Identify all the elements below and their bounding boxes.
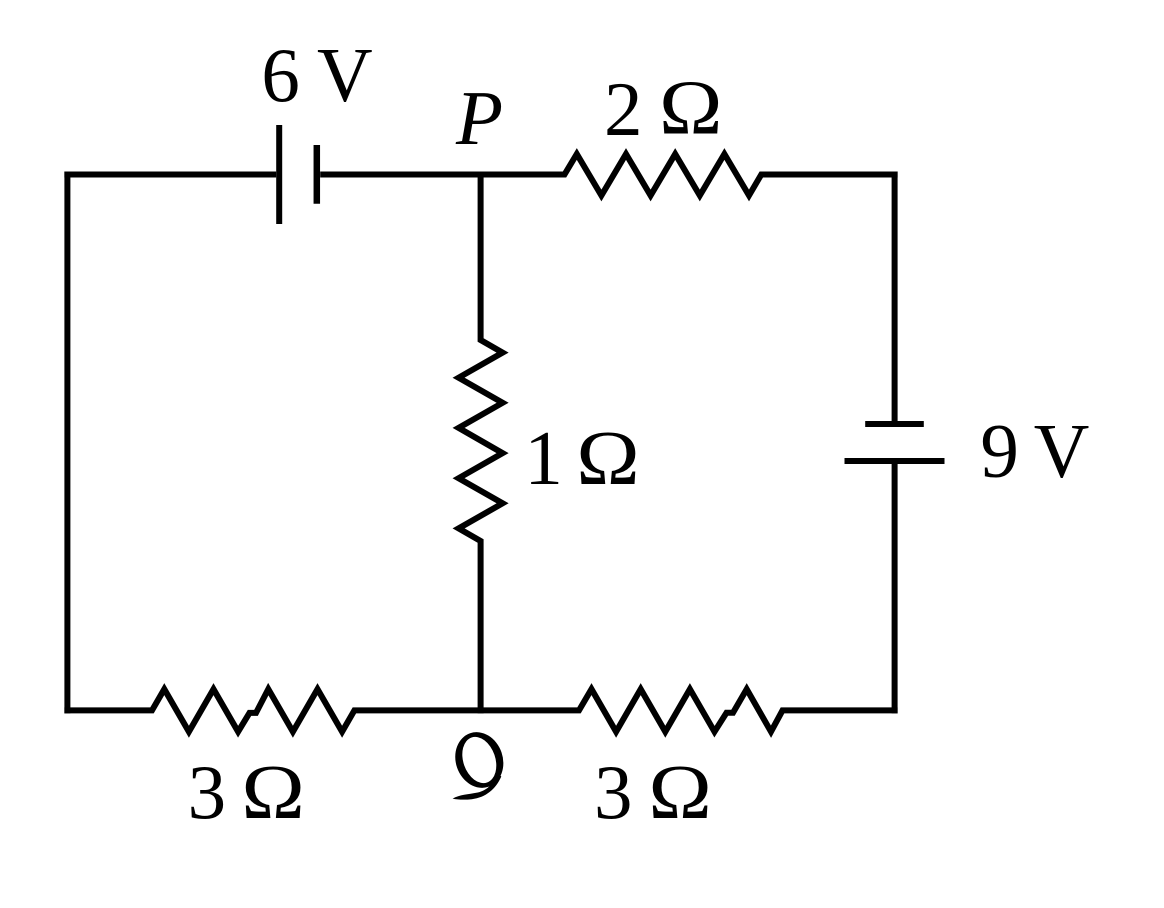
svg-text:Ω: Ω — [648, 749, 712, 835]
svg-text:Ω: Ω — [576, 415, 640, 501]
svg-text:V: V — [1034, 408, 1090, 494]
svg-text:Ω: Ω — [659, 65, 723, 151]
svg-text:Ω: Ω — [241, 749, 305, 835]
svg-text:3: 3 — [594, 749, 633, 835]
svg-text:P: P — [455, 75, 503, 161]
svg-text:9: 9 — [980, 408, 1019, 494]
svg-text:V: V — [317, 32, 373, 118]
svg-text:3: 3 — [188, 749, 227, 835]
svg-text:2: 2 — [604, 66, 643, 152]
svg-text:6: 6 — [261, 32, 300, 118]
svg-text:1: 1 — [524, 415, 563, 501]
